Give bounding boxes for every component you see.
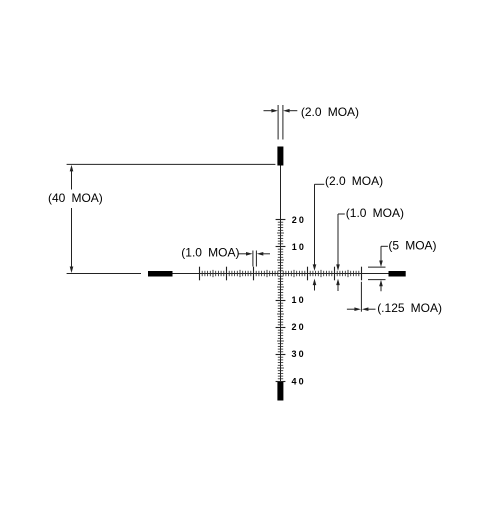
svg-text:(2.0 MOA): (2.0 MOA) <box>325 174 383 188</box>
dimension (5 MOA) tall tick height <box>368 238 437 291</box>
svg-text:40: 40 <box>292 376 306 386</box>
svg-text:10: 10 <box>292 295 306 305</box>
svg-text:(1.0 MOA): (1.0 MOA) <box>181 245 239 259</box>
svg-text:(1.0 MOA): (1.0 MOA) <box>346 206 404 220</box>
bottom post <box>277 382 283 401</box>
dimension (1.0 MOA) minor tick height right <box>336 206 404 291</box>
horizontal tick marks <box>200 267 362 281</box>
node label 10 (lower) <box>292 295 306 305</box>
dimension (.125 MOA) line thickness <box>347 282 442 315</box>
svg-text:30: 30 <box>292 349 306 359</box>
svg-text:(5 MOA): (5 MOA) <box>388 238 436 252</box>
svg-text:20: 20 <box>292 322 306 332</box>
node label 30 (lower) <box>292 349 306 359</box>
svg-text:(40 MOA): (40 MOA) <box>48 191 103 205</box>
wire vertical crosshair line <box>280 166 282 382</box>
svg-text:(.125 MOA): (.125 MOA) <box>377 301 442 315</box>
dimension (2.0 MOA) minor tick height <box>313 174 383 291</box>
node label 20 (lower) <box>292 322 306 332</box>
svg-text:10: 10 <box>292 242 306 252</box>
svg-text:(2.0 MOA): (2.0 MOA) <box>301 105 359 119</box>
node label 40 (lower) <box>292 376 306 386</box>
dimension (40 MOA) vertical span <box>48 164 275 273</box>
node label 20 (upper) <box>292 215 306 225</box>
dimension (1.0 MOA) tick spacing left <box>181 245 270 266</box>
wire horizontal crosshair line <box>173 273 389 275</box>
top post <box>277 147 283 166</box>
right post <box>389 271 406 277</box>
svg-text:20: 20 <box>292 215 306 225</box>
dimension (2.0 MOA) top post width <box>264 105 360 140</box>
node label 10 (upper) <box>292 242 306 252</box>
vertical tick marks <box>276 220 286 382</box>
left post <box>148 271 173 277</box>
